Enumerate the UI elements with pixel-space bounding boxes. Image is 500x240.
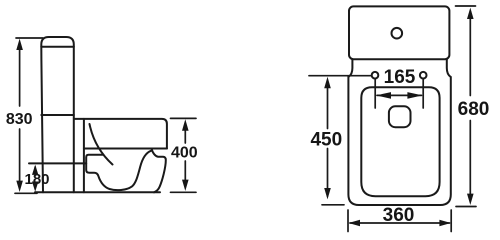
hinge circle left [372, 72, 379, 79]
dim 830/180 bottom tick [15, 192, 37, 194]
dim 400 bottom extension [171, 191, 197, 193]
bowl front step and face [152, 149, 166, 193]
dim 680 arrows [467, 8, 474, 205]
dim 165 extension left [374, 79, 376, 108]
dim 450 arrows [324, 77, 331, 200]
bowl outer outline left [348, 59, 450, 205]
svg-text:450: 450 [310, 130, 342, 151]
outlet square [389, 106, 411, 127]
dim 400 line [184, 123, 186, 187]
rim bottom line [84, 148, 167, 150]
bowl top (seat) line [74, 119, 167, 149]
outlet height line [29, 162, 86, 164]
hinge circle right [420, 72, 427, 79]
dim 830 top extension [16, 37, 43, 39]
dim 450 bottom tick [322, 204, 344, 206]
dim 450 top extension [309, 75, 371, 77]
dim 360 line [350, 222, 450, 224]
svg-text:180: 180 [24, 171, 49, 188]
tank (top view) [349, 6, 449, 59]
dim 360 extension right [450, 210, 452, 232]
dim 360 arrows [349, 220, 451, 227]
seat inner rim [361, 87, 439, 196]
svg-text:400: 400 [171, 145, 198, 162]
dim 165 line [377, 94, 422, 96]
floor line [35, 191, 160, 193]
svg-text:360: 360 [383, 205, 415, 226]
dim 165 arrows [376, 92, 423, 99]
dim 180 line [34, 167, 36, 188]
dim 680 bottom tick [456, 206, 476, 208]
bowl inner diagonal curve [90, 124, 113, 165]
dim 360 extension left [347, 210, 349, 232]
dim 830 arrows [16, 39, 23, 192]
pedestal back vertical [83, 119, 85, 192]
tank bottom line [41, 114, 74, 116]
dim 165 extension right [422, 79, 424, 108]
svg-text:680: 680 [458, 99, 490, 120]
svg-text:830: 830 [6, 111, 33, 128]
dim 400 arrows [182, 119, 189, 191]
flush button [392, 28, 403, 39]
dim 680 top tick [456, 5, 476, 7]
dim 400 top extension [171, 117, 197, 119]
dim 680 line [469, 11, 471, 201]
dim 180 arrows [32, 165, 38, 192]
cistern tank outline [41, 37, 74, 192]
dim 450 line [327, 81, 329, 196]
trapway outline [86, 151, 151, 190]
dim 830 line [19, 43, 21, 188]
svg-text:165: 165 [384, 67, 416, 88]
tank lid line [41, 46, 74, 48]
